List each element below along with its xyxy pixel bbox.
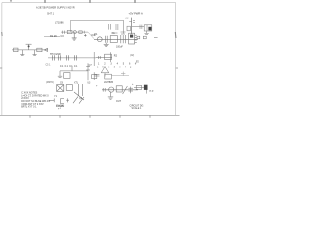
svg-text:OUT: OUT	[116, 100, 122, 103]
svg-text:H.P.: H.P.	[149, 90, 154, 93]
svg-text:SN 230: SN 230	[56, 105, 65, 108]
svg-text:LT1086: LT1086	[55, 21, 64, 25]
svg-text:(4MHz): (4MHz)	[46, 81, 54, 84]
svg-text:BRTL XYT 0 1: BRTL XYT 0 1	[21, 106, 37, 109]
svg-text:+5V PWR A: +5V PWR A	[129, 12, 143, 16]
svg-text:1 2 3 4 5 6 7: 1 2 3 4 5 6 7	[98, 62, 139, 65]
svg-text:TP3 GND: TP3 GND	[50, 53, 61, 56]
svg-text:LM7805: LM7805	[104, 81, 114, 84]
svg-text:(J2): (J2)	[130, 54, 134, 57]
svg-text:R1 2K: R1 2K	[50, 35, 57, 38]
svg-text:0.1 0.1 0.1 0.1: 0.1 0.1 0.1 0.1	[60, 65, 78, 68]
svg-text:C5 1: C5 1	[46, 65, 52, 67]
svg-text:100uF: 100uF	[116, 45, 123, 48]
svg-text:XTL: XTL	[74, 82, 79, 84]
svg-text:SCALE 1: SCALE 1	[132, 107, 143, 110]
svg-text:A 287JB POWER SUPPLY KEYR: A 287JB POWER SUPPLY KEYR	[36, 6, 75, 10]
svg-text:a b c d e f g: a b c d e f g	[97, 66, 133, 68]
svg-text:SHT 1: SHT 1	[47, 12, 55, 15]
